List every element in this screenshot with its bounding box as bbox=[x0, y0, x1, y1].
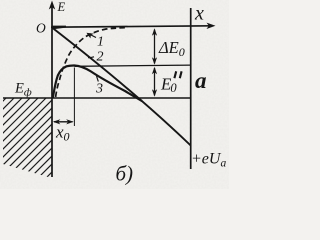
svg-text:x: x bbox=[194, 3, 204, 25]
svg-text:3: 3 bbox=[95, 82, 103, 97]
svg-text:1: 1 bbox=[97, 35, 104, 50]
svg-text:2: 2 bbox=[97, 50, 104, 65]
svg-text:a: a bbox=[195, 68, 207, 93]
svg-text:O: O bbox=[36, 21, 46, 36]
svg-text:б): б) bbox=[116, 162, 134, 186]
svg-text:E: E bbox=[57, 0, 66, 14]
